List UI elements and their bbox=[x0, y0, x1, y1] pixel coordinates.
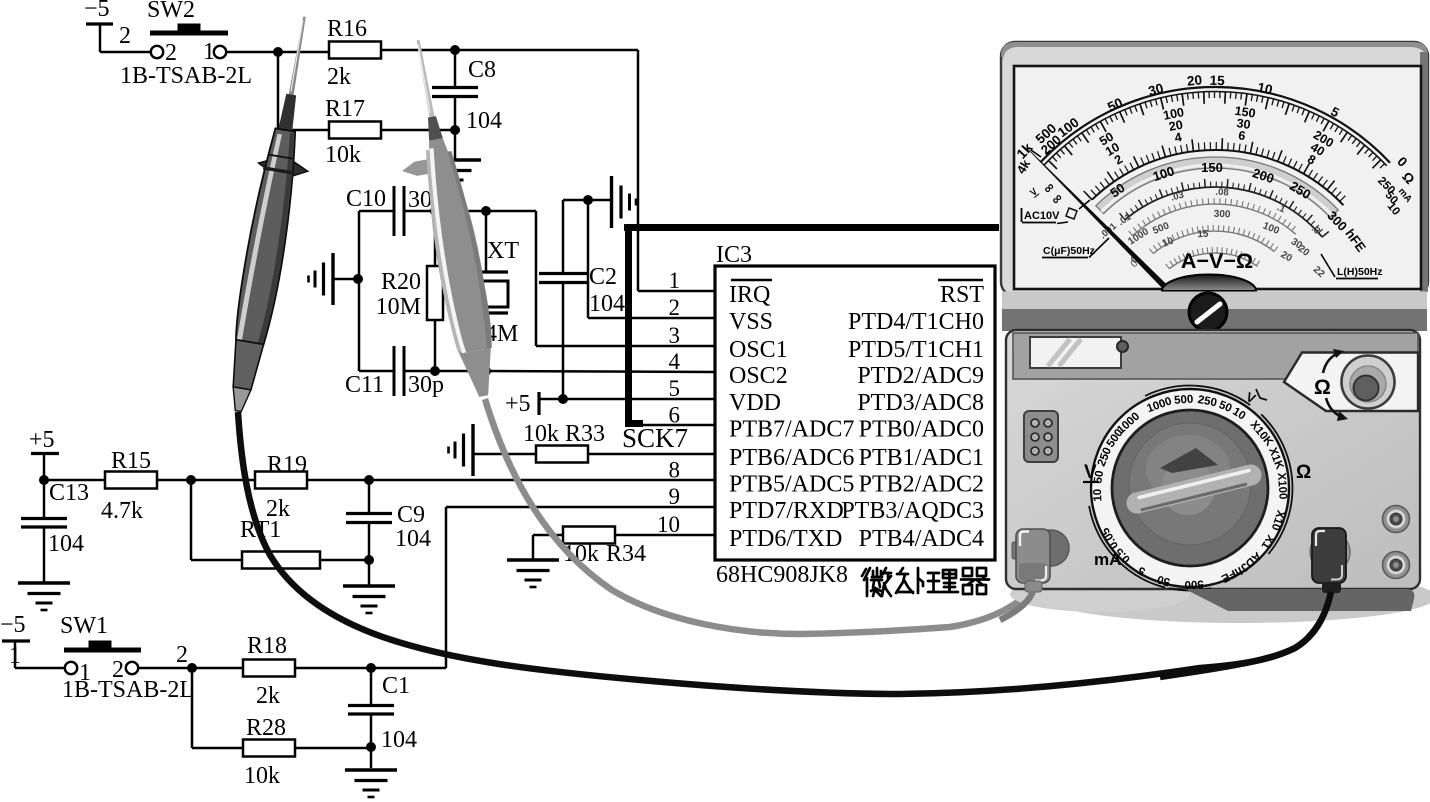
svg-text:AC10V: AC10V bbox=[1024, 210, 1060, 222]
svg-text:C2: C2 bbox=[589, 264, 617, 290]
svg-text:8: 8 bbox=[669, 458, 681, 483]
selector section brackets bbox=[1145, 386, 1250, 406]
switch SW1 bbox=[15, 667, 64, 670]
wire -5 supply SW2 bbox=[86, 22, 113, 25]
svg-text:R19: R19 bbox=[267, 452, 307, 478]
svg-text:2k: 2k bbox=[256, 683, 280, 709]
svg-text:C1: C1 bbox=[382, 673, 410, 699]
wire node after SW2 bbox=[226, 51, 329, 54]
wire pin 8 rail bbox=[307, 479, 715, 482]
svg-text:PTB0/ADC0: PTB0/ADC0 bbox=[859, 417, 984, 443]
svg-text:2: 2 bbox=[669, 295, 681, 320]
RST overline bbox=[938, 279, 983, 282]
ground below C9 bbox=[343, 584, 395, 587]
svg-text:SW1: SW1 bbox=[60, 613, 108, 639]
svg-text:IC3: IC3 bbox=[716, 242, 752, 268]
wire pin 7 SCK bbox=[589, 453, 715, 456]
svg-text:1B-TSAB-2L: 1B-TSAB-2L bbox=[120, 63, 252, 89]
svg-text:30p: 30p bbox=[408, 372, 444, 398]
wire pin 4 OSC2 rail bbox=[486, 371, 715, 372]
multimeter top shell bbox=[1001, 42, 1428, 296]
wire R16 to C8 node bbox=[381, 49, 455, 52]
svg-text:R20: R20 bbox=[381, 269, 421, 295]
svg-text:PTB3/AQDC3: PTB3/AQDC3 bbox=[841, 498, 984, 524]
crystal XT 4M bbox=[485, 211, 488, 272]
svg-text:Ω: Ω bbox=[1314, 376, 1331, 399]
svg-text:PTB4/ADC4: PTB4/ADC4 bbox=[859, 526, 984, 552]
svg-text:10: 10 bbox=[657, 512, 680, 537]
ohm adjust arrows bbox=[1323, 353, 1338, 373]
dial DCV scale bbox=[1092, 150, 1343, 205]
svg-text:SCK7: SCK7 bbox=[622, 423, 688, 453]
wire pin 5 VDD bbox=[539, 398, 715, 401]
connector dot block bbox=[1024, 411, 1058, 462]
svg-text:1B-TSAB-2L: 1B-TSAB-2L bbox=[62, 677, 194, 703]
resistor R34 10k bbox=[533, 534, 563, 537]
svg-text:VSS: VSS bbox=[729, 309, 773, 335]
svg-text:1: 1 bbox=[9, 643, 21, 669]
svg-text:4: 4 bbox=[669, 349, 681, 374]
svg-text:PTD3/ADC8: PTD3/ADC8 bbox=[857, 390, 984, 416]
svg-text:104: 104 bbox=[589, 291, 625, 317]
black probe cable bbox=[238, 412, 1331, 694]
svg-text:2: 2 bbox=[119, 23, 131, 49]
svg-text:6: 6 bbox=[669, 403, 681, 428]
resistor R28 10k bbox=[191, 668, 194, 748]
svg-text:PTD2/ADC9: PTD2/ADC9 bbox=[857, 363, 984, 389]
svg-text:PTD4/T1CH0: PTD4/T1CH0 bbox=[848, 309, 984, 335]
svg-text:VDD: VDD bbox=[729, 390, 781, 416]
dial mirror band bbox=[1096, 157, 1339, 218]
svg-text:10: 10 bbox=[1256, 80, 1274, 98]
ground below C8 bbox=[454, 130, 457, 159]
dial hFE scale bbox=[1125, 187, 1322, 237]
multimeter dial face bbox=[1014, 66, 1421, 289]
svg-text:R28: R28 bbox=[246, 715, 286, 741]
resistor R16 2k bbox=[329, 42, 381, 59]
label microprocessor (CJK strokes) bbox=[862, 568, 891, 596]
selector pointer wedge bbox=[1160, 448, 1218, 473]
capacitor C1 104 bbox=[370, 668, 373, 704]
svg-text:OSC1: OSC1 bbox=[729, 337, 788, 363]
svg-text:+5: +5 bbox=[505, 391, 531, 417]
zero-adjust knob bbox=[1189, 293, 1227, 331]
ground below C13 bbox=[18, 581, 70, 584]
svg-text:R15: R15 bbox=[111, 448, 151, 474]
wire pin 10 bbox=[616, 534, 715, 537]
thick +5 bus bbox=[624, 224, 999, 231]
svg-text:X100: X100 bbox=[1275, 472, 1289, 500]
svg-text:10: 10 bbox=[1092, 489, 1104, 502]
svg-text:15: 15 bbox=[1209, 73, 1225, 89]
svg-text:−5: −5 bbox=[84, 0, 110, 22]
ground above C2 bbox=[563, 199, 611, 202]
svg-text:104: 104 bbox=[48, 531, 84, 557]
svg-text:IRQ: IRQ bbox=[729, 282, 770, 308]
mirror window bbox=[1030, 337, 1121, 368]
svg-text:+5: +5 bbox=[29, 427, 55, 453]
svg-text:10k: 10k bbox=[244, 763, 280, 789]
selector dial ring bbox=[1091, 389, 1289, 587]
svg-text:−5: −5 bbox=[0, 612, 26, 638]
meter mid band bbox=[1002, 292, 1427, 310]
svg-text:C8: C8 bbox=[468, 57, 496, 83]
wire pin 6 bbox=[641, 424, 715, 427]
svg-text:PTB6/ADC6: PTB6/ADC6 bbox=[729, 445, 854, 471]
svg-text:R33: R33 bbox=[565, 421, 605, 447]
wire R17 branch bbox=[277, 52, 280, 130]
svg-text:4.7k: 4.7k bbox=[101, 498, 143, 524]
svg-text:L(H)50Hz: L(H)50Hz bbox=[1337, 266, 1383, 278]
svg-text:R34: R34 bbox=[606, 541, 646, 567]
ground below R34 bbox=[532, 535, 535, 559]
svg-text:C(μF)50Hz: C(μF)50Hz bbox=[1043, 245, 1095, 257]
svg-text:C10: C10 bbox=[346, 186, 386, 212]
svg-text:10k: 10k bbox=[325, 142, 361, 168]
svg-text:68HC908JK8: 68HC908JK8 bbox=[716, 562, 848, 588]
window dot bbox=[1117, 341, 1128, 352]
svg-text:.08: .08 bbox=[1215, 187, 1229, 199]
svg-text:PTB1/ADC1: PTB1/ADC1 bbox=[859, 445, 984, 471]
svg-text:15: 15 bbox=[1197, 229, 1209, 241]
resistor R18 2k bbox=[243, 660, 295, 677]
capacitor C13 104 bbox=[39, 475, 49, 485]
svg-text:104: 104 bbox=[395, 526, 431, 552]
dial scale C bbox=[1169, 253, 1257, 269]
wire top rail to IRQ pin 1 bbox=[455, 49, 638, 52]
meter needle bbox=[1026, 147, 1203, 322]
svg-text:SW2: SW2 bbox=[147, 0, 195, 23]
svg-text:3: 3 bbox=[669, 323, 681, 348]
left probe plug bbox=[1033, 530, 1069, 566]
svg-text:RST: RST bbox=[940, 282, 984, 308]
svg-text:C13: C13 bbox=[49, 480, 89, 506]
svg-text:10k: 10k bbox=[523, 421, 559, 447]
IRQ overline bbox=[731, 279, 772, 282]
svg-text:A−V−Ω: A−V−Ω bbox=[1181, 249, 1253, 273]
capacitor C10 30p bbox=[359, 210, 394, 213]
IC U1 68HC908JK8 box bbox=[715, 266, 995, 560]
dial scale B bbox=[1153, 231, 1274, 253]
svg-text:104: 104 bbox=[381, 727, 417, 753]
selector handle bbox=[1137, 475, 1251, 503]
svg-text:5: 5 bbox=[669, 376, 681, 401]
ground below C1 bbox=[345, 768, 397, 771]
svg-text:500: 500 bbox=[1184, 577, 1204, 590]
svg-text:C11: C11 bbox=[345, 372, 384, 398]
resistor R15 4.7k bbox=[44, 479, 105, 482]
svg-text:20: 20 bbox=[1186, 72, 1203, 88]
recessed strip bbox=[1013, 333, 1418, 379]
black test probe bbox=[218, 13, 333, 416]
svg-text:1: 1 bbox=[669, 268, 681, 293]
capacitor C11 30p bbox=[359, 370, 394, 373]
svg-text:PTD6/TXD: PTD6/TXD bbox=[729, 526, 842, 552]
wire pin 3 OSC1 bbox=[536, 345, 715, 348]
svg-text:10M: 10M bbox=[376, 294, 421, 320]
switch SW2 bbox=[100, 51, 150, 54]
svg-text:OSC2: OSC2 bbox=[729, 363, 788, 389]
wire OSC1 top rail bbox=[486, 210, 536, 213]
wire pin 9 bbox=[445, 507, 448, 668]
svg-text:C9: C9 bbox=[397, 502, 425, 528]
ground left of R33 bbox=[471, 424, 474, 476]
wire pin 2 VSS bbox=[587, 200, 590, 318]
capacitor C2 104 bbox=[562, 200, 565, 272]
thermistor RT1 bbox=[190, 480, 193, 560]
svg-text:2k: 2k bbox=[327, 64, 351, 90]
svg-text:R18: R18 bbox=[247, 633, 287, 659]
multimeter body shadow bbox=[1044, 571, 1430, 623]
svg-text:PTD5/T1CH1: PTD5/T1CH1 bbox=[848, 337, 984, 363]
svg-text:9: 9 bbox=[669, 484, 681, 509]
svg-text:150: 150 bbox=[1201, 160, 1223, 175]
right panel jacks bbox=[1383, 506, 1410, 533]
svg-text:2: 2 bbox=[176, 642, 188, 668]
capacitor C9 104 bbox=[368, 480, 371, 512]
meter dark bottom side bbox=[1185, 589, 1414, 611]
white banner for ohm adjust bbox=[1284, 353, 1418, 412]
capacitor C8 104 bbox=[454, 50, 457, 86]
svg-text:1: 1 bbox=[203, 39, 215, 65]
resistor R20 10M bbox=[434, 211, 437, 266]
svg-text:PTB5/ADC5: PTB5/ADC5 bbox=[729, 472, 854, 498]
resistor R33 10k bbox=[536, 446, 588, 463]
resistor R19 2k bbox=[255, 472, 307, 489]
svg-text:R17: R17 bbox=[325, 96, 365, 122]
svg-text:104: 104 bbox=[466, 108, 502, 134]
selector knob bbox=[1112, 410, 1268, 566]
dial outer ohm scale bbox=[1041, 87, 1390, 163]
svg-text:R16: R16 bbox=[327, 16, 367, 42]
svg-text:PTD7/RXD: PTD7/RXD bbox=[729, 498, 844, 524]
grey test probe bbox=[380, 36, 504, 403]
resistor R17 10k bbox=[329, 122, 381, 139]
svg-text:Ω: Ω bbox=[1296, 462, 1311, 483]
svg-text:PTB2/ADC2: PTB2/ADC2 bbox=[859, 472, 984, 498]
svg-text:XT: XT bbox=[487, 238, 519, 264]
crystal oscillator section left rail bbox=[358, 211, 361, 371]
ohm adjust knob bbox=[1342, 356, 1395, 409]
svg-text:500: 500 bbox=[1174, 394, 1194, 407]
ground left of R20 bbox=[331, 253, 334, 305]
right probe plug bbox=[1310, 532, 1350, 572]
grey probe cable bbox=[485, 399, 1033, 634]
svg-text:mA: mA bbox=[1094, 550, 1121, 569]
svg-text:V: V bbox=[1084, 462, 1097, 483]
svg-text:300: 300 bbox=[1214, 209, 1231, 221]
dial C(uF) scale bbox=[1133, 204, 1296, 236]
svg-text:PTB7/ADC7: PTB7/ADC7 bbox=[729, 417, 854, 443]
